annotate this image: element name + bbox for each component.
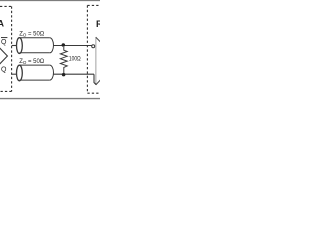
wire: T1 to receiver (53, 45, 92, 47)
svg-text:Q: Q (1, 39, 7, 46)
svg-text:100Ω: 100Ω (69, 56, 81, 63)
wire: driver Q to bottom line (12, 73, 17, 75)
receiver box (dashed, right, clipped) (87, 5, 100, 93)
wire: bottom input bend into receiver (94, 74, 96, 85)
driver amplifier triangle (clipped at left) (0, 44, 7, 68)
receiver input bubble (inverting input) (92, 45, 95, 48)
junction node (bottom) (62, 73, 66, 77)
transmission line T2 (coax cylinder) (17, 65, 54, 81)
junction node (top) (62, 43, 66, 47)
transmission line T1 (coax cylinder) (17, 38, 54, 54)
svg-text:Q: Q (1, 67, 7, 74)
receiver triangle (clipped at right) (95, 38, 97, 85)
bottom grey border rule (0, 98, 100, 100)
wire: driver Qbar to top line (12, 45, 17, 47)
background (0, 0, 100, 100)
svg-text:R: R (96, 19, 100, 29)
svg-text:A: A (0, 19, 4, 29)
resistor RT 100 ohm (termination) (60, 47, 67, 73)
wire: T2 to receiver (53, 73, 94, 75)
driver box (dashed, left, clipped) (0, 6, 12, 91)
top grey border rule (0, 0, 100, 2)
